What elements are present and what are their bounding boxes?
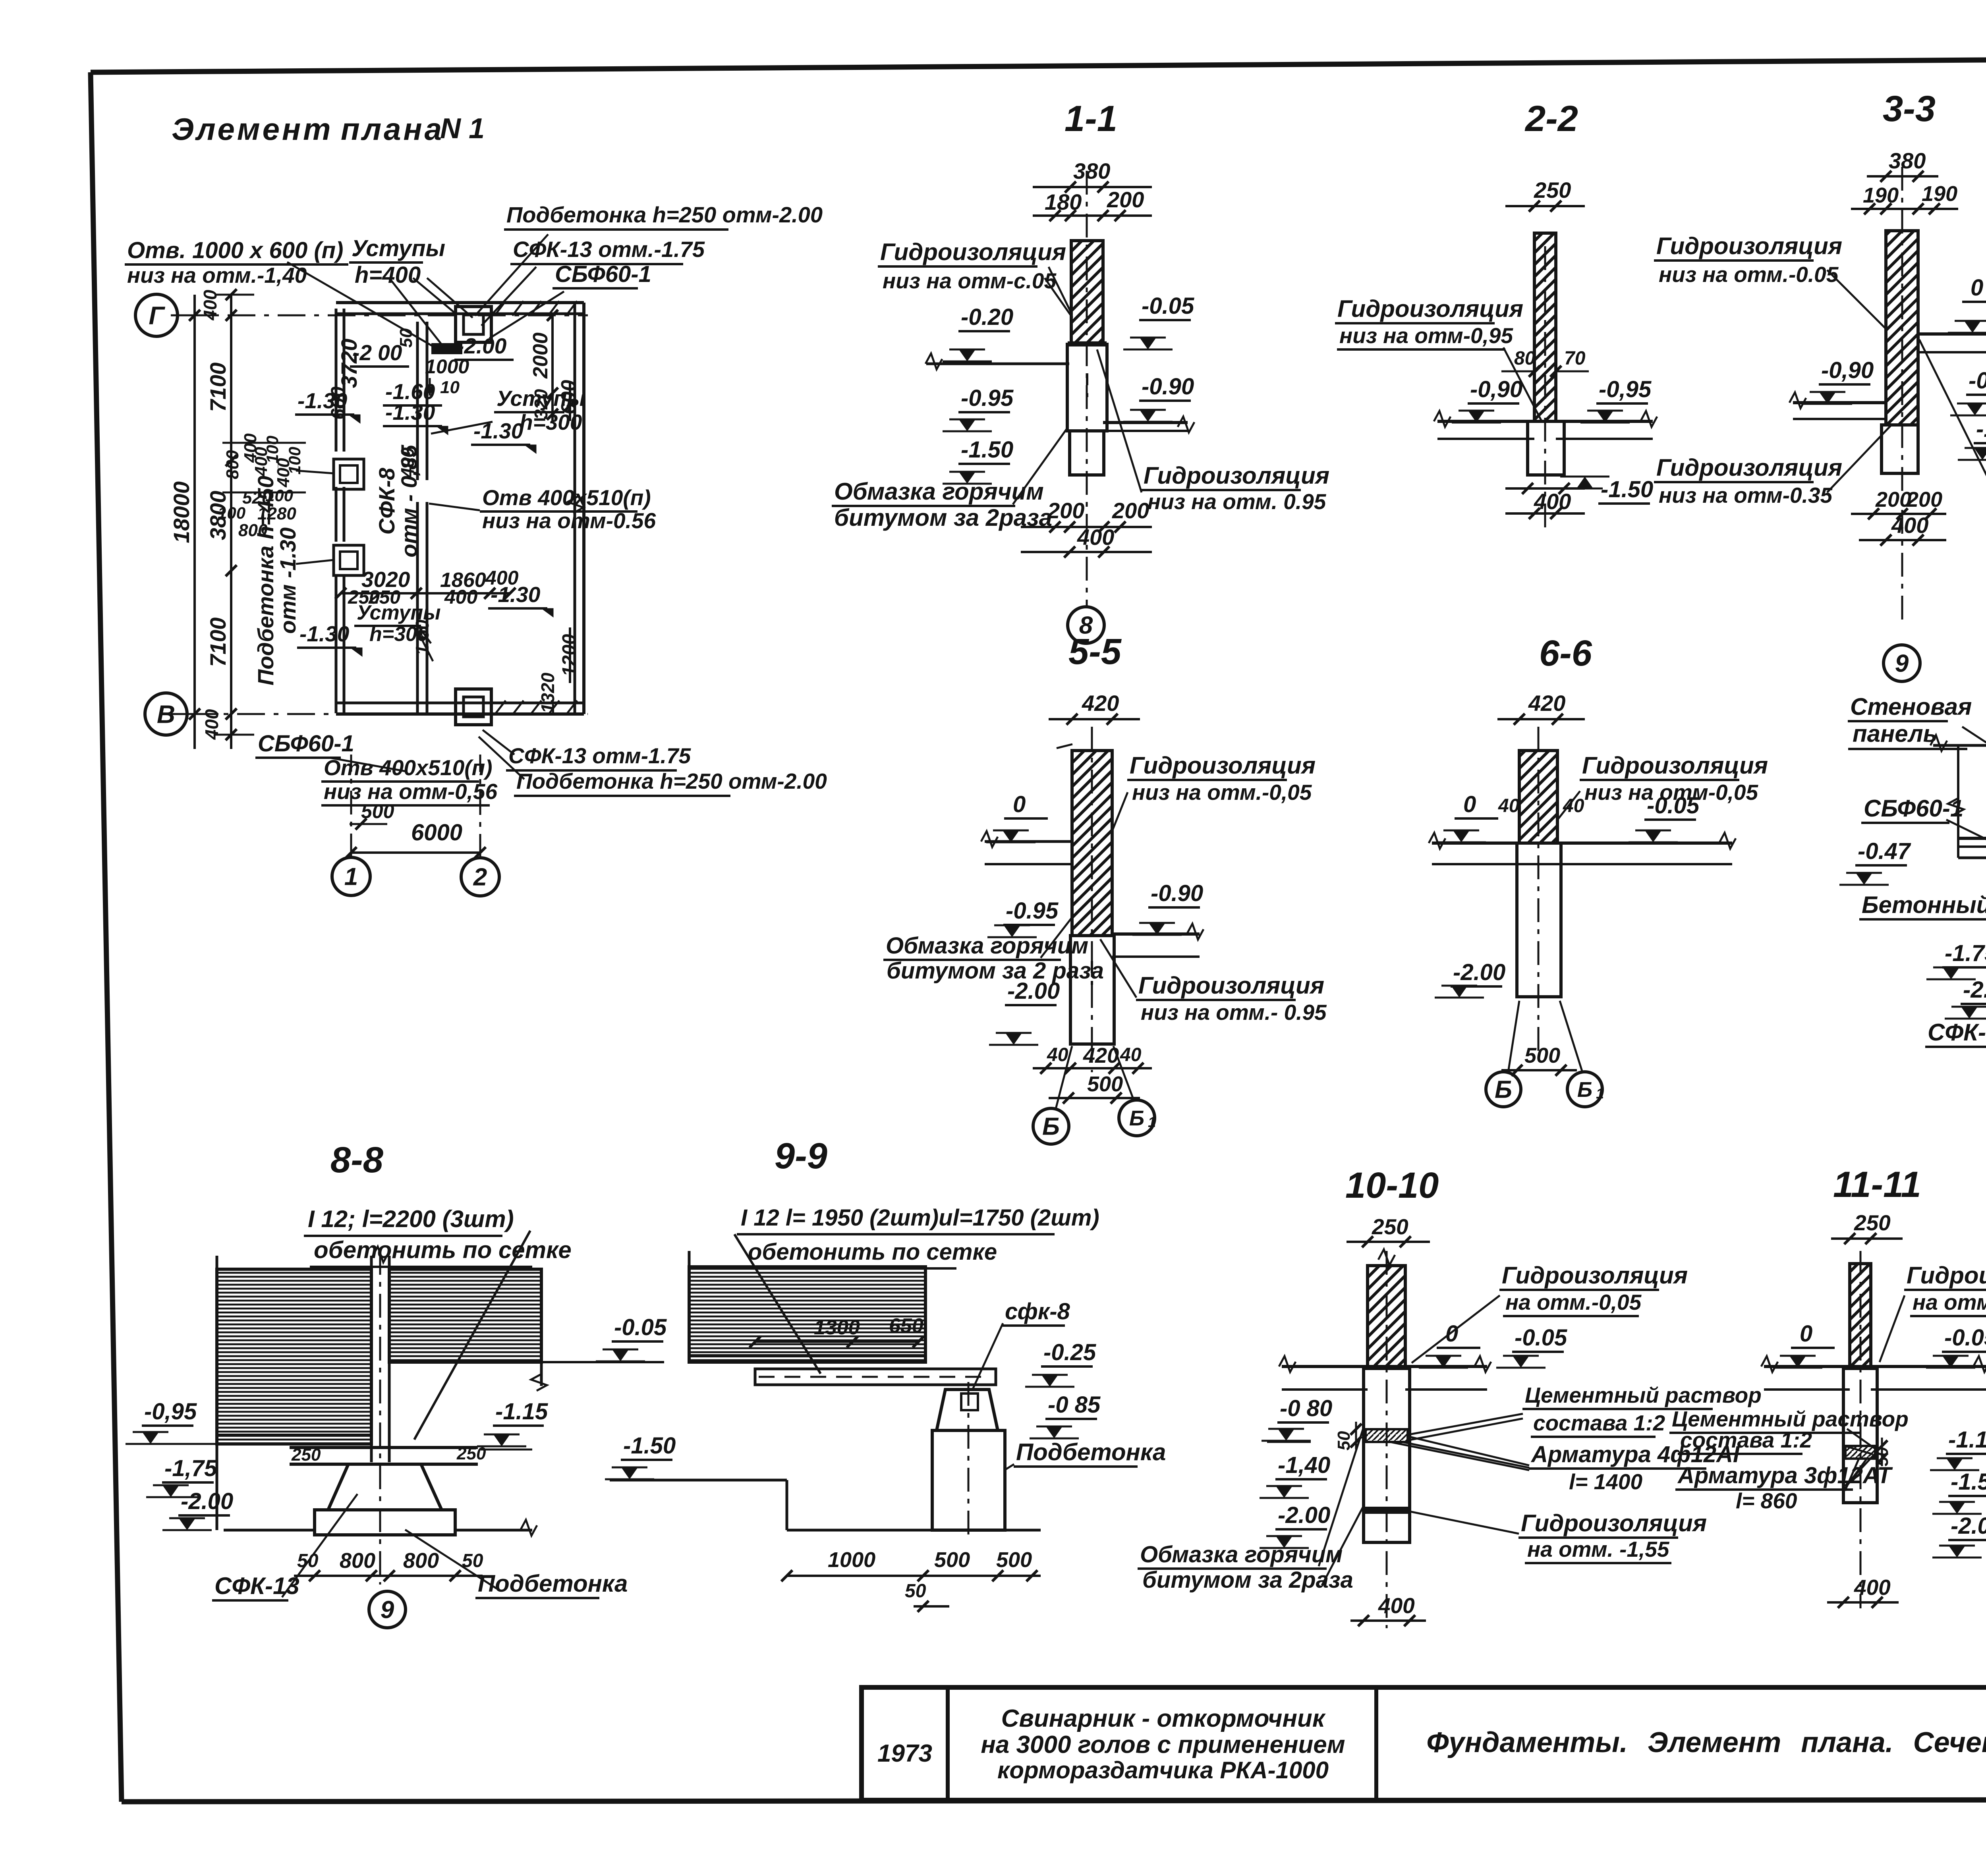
svg-text:380: 380 xyxy=(1889,148,1926,173)
svg-text:низ на отм.- 0.95: низ на отм.- 0.95 xyxy=(1141,1000,1327,1025)
svg-text:-0,95: -0,95 xyxy=(144,1399,197,1424)
svg-text:1300: 1300 xyxy=(814,1316,860,1339)
svg-text:800: 800 xyxy=(403,1549,439,1573)
svg-text:-1.50: -1.50 xyxy=(1601,477,1653,502)
svg-text:-0.05: -0.05 xyxy=(1944,1325,1986,1351)
svg-text:битумом за 2 раза: битумом за 2 раза xyxy=(887,958,1104,984)
svg-text:Подбетонка h=250 отм-2.00: Подбетонка h=250 отм-2.00 xyxy=(506,202,823,227)
svg-text:-1.15: -1.15 xyxy=(495,1399,548,1424)
svg-text:Гидроизоляция: Гидроизоляция xyxy=(1337,295,1523,322)
svg-text:кормораздатчика РКА-1000: кормораздатчика РКА-1000 xyxy=(997,1757,1329,1783)
svg-text:2000: 2000 xyxy=(529,332,552,379)
svg-text:-2.00: -2.00 xyxy=(1007,978,1060,1004)
svg-text:-0.05: -0.05 xyxy=(1142,293,1194,319)
svg-text:800: 800 xyxy=(340,1549,375,1573)
svg-text:-0.90: -0.90 xyxy=(1142,374,1194,400)
svg-text:Гидроизоляция: Гидроизоляция xyxy=(1502,1262,1688,1289)
svg-text:18000: 18000 xyxy=(169,481,194,543)
svg-text:-1,40: -1,40 xyxy=(1278,1452,1330,1478)
svg-text:400: 400 xyxy=(201,709,222,740)
svg-text:I 12 l= 1950 (2шт)иl=1750 (2ш: I 12 l= 1950 (2шт)иl=1750 (2шт) xyxy=(741,1205,1099,1231)
svg-text:0: 0 xyxy=(1463,791,1476,817)
svg-text:СБФ60-1: СБФ60-1 xyxy=(555,261,651,287)
svg-text:на отм.-0,05: на отм.-0,05 xyxy=(1505,1290,1642,1314)
svg-text:СФК-8: СФК-8 xyxy=(374,467,399,535)
svg-text:Подбетонка: Подбетонка xyxy=(1016,1439,1166,1465)
svg-text:500: 500 xyxy=(996,1548,1032,1572)
svg-text:Гидроизоляция: Гидроизоляция xyxy=(1138,972,1324,999)
svg-text:180: 180 xyxy=(1045,189,1082,214)
svg-text:1-1: 1-1 xyxy=(1064,98,1117,139)
svg-text:800: 800 xyxy=(238,521,268,540)
svg-text:Г: Г xyxy=(149,301,165,330)
svg-text:1200: 1200 xyxy=(559,634,580,676)
svg-text:-0,95: -0,95 xyxy=(1599,376,1652,402)
svg-text:500: 500 xyxy=(934,1548,970,1572)
svg-text:l= 860: l= 860 xyxy=(1736,1488,1797,1513)
svg-text:2: 2 xyxy=(473,864,487,891)
svg-text:-2.00: -2.00 xyxy=(457,334,507,358)
svg-text:Гидроизоляция: Гидроизоляция xyxy=(1907,1262,1986,1289)
svg-text:Гидроизоляция: Гидроизоляция xyxy=(1144,462,1329,489)
svg-text:500: 500 xyxy=(1087,1072,1123,1096)
svg-text:Уступы: Уступы xyxy=(352,235,445,261)
svg-text:Отв 400х510(п): Отв 400х510(п) xyxy=(324,755,493,780)
svg-text:8-8: 8-8 xyxy=(330,1140,384,1180)
svg-text:-2.00: -2.00 xyxy=(1951,1513,1986,1539)
svg-text:50: 50 xyxy=(905,1581,926,1602)
svg-text:100: 100 xyxy=(285,447,304,475)
svg-text:6-6: 6-6 xyxy=(1539,633,1592,674)
svg-text:11-11: 11-11 xyxy=(1833,1164,1921,1205)
svg-text:h=400: h=400 xyxy=(355,262,421,288)
svg-text:250: 250 xyxy=(291,1445,321,1465)
svg-text:битумом за 2раза: битумом за 2раза xyxy=(1142,1567,1353,1593)
svg-text:-2.00: -2.00 xyxy=(1453,959,1505,985)
svg-text:Уступы: Уступы xyxy=(496,386,585,411)
svg-text:250: 250 xyxy=(1854,1210,1891,1235)
svg-text:70: 70 xyxy=(1564,348,1586,369)
svg-text:200: 200 xyxy=(1047,498,1084,523)
svg-text:Бетонный столбик: Бетонный столбик xyxy=(1862,892,1986,918)
svg-text:-1.75: -1.75 xyxy=(1945,940,1986,966)
svg-text:6000: 6000 xyxy=(411,820,462,845)
svg-text:-1.30: -1.30 xyxy=(298,388,348,413)
svg-text:битумом за 2раза: битумом за 2раза xyxy=(834,504,1052,531)
svg-text:-0,90: -0,90 xyxy=(1821,357,1874,383)
svg-text:Б: Б xyxy=(1577,1078,1592,1102)
svg-text:Элемент: Элемент xyxy=(172,112,333,147)
svg-text:3-3: 3-3 xyxy=(1883,89,1936,129)
svg-text:Гидроизоляция: Гидроизоляция xyxy=(1521,1510,1707,1536)
svg-text:низ на отм-0,56: низ на отм-0,56 xyxy=(324,779,497,804)
svg-text:низ на отм-0.35: низ на отм-0.35 xyxy=(1659,483,1833,508)
svg-text:Цементный раствор: Цементный раствор xyxy=(1525,1383,1762,1407)
svg-text:400: 400 xyxy=(1891,513,1928,538)
svg-text:10-10: 10-10 xyxy=(1345,1165,1439,1206)
svg-text:-0 85: -0 85 xyxy=(1048,1392,1101,1418)
svg-text:1000: 1000 xyxy=(425,355,469,378)
svg-text:Свинарник - откормочник: Свинарник - откормочник xyxy=(1001,1705,1326,1732)
svg-text:отм - 0,85: отм - 0,85 xyxy=(396,444,421,557)
svg-text:Гидроизоляция: Гидроизоляция xyxy=(880,239,1066,265)
svg-text:на 3000 голов с применением: на 3000 голов с применением xyxy=(981,1731,1345,1758)
svg-text:1: 1 xyxy=(1148,1114,1156,1130)
svg-text:250: 250 xyxy=(1372,1214,1408,1239)
svg-text:низ на отм-с.05: низ на отм-с.05 xyxy=(883,268,1057,293)
svg-text:Подбетонка: Подбетонка xyxy=(478,1570,628,1597)
svg-text:400: 400 xyxy=(1077,525,1114,550)
svg-text:отм -1.30: отм -1.30 xyxy=(275,527,300,634)
svg-text:0: 0 xyxy=(1013,791,1026,817)
svg-text:Подбетонка h=250 отм-2.00: Подбетонка h=250 отм-2.00 xyxy=(516,769,827,793)
svg-text:1: 1 xyxy=(1596,1085,1604,1102)
svg-text:1973: 1973 xyxy=(877,1740,932,1767)
svg-text:420: 420 xyxy=(1082,691,1119,716)
svg-text:100: 100 xyxy=(218,504,245,522)
svg-text:Гидроизоляция: Гидроизоляция xyxy=(1582,752,1768,779)
svg-text:низ на отм.-0,05: низ на отм.-0,05 xyxy=(1132,780,1312,805)
svg-text:-1.12: -1.12 xyxy=(1948,1427,1986,1453)
svg-text:0: 0 xyxy=(1800,1321,1812,1347)
svg-text:420: 420 xyxy=(1528,691,1565,716)
svg-text:-2.00: -2.00 xyxy=(1963,977,1986,1003)
svg-text:200: 200 xyxy=(1112,498,1149,523)
svg-text:200: 200 xyxy=(1906,488,1942,511)
svg-text:400: 400 xyxy=(485,567,519,589)
svg-text:-0.95: -0.95 xyxy=(1969,368,1986,394)
svg-text:1320: 1320 xyxy=(537,672,558,713)
svg-text:I 12; l=2200 (3шт): I 12; l=2200 (3шт) xyxy=(308,1206,514,1232)
svg-text:Б: Б xyxy=(1495,1076,1512,1104)
svg-text:на отм.-0.05: на отм.-0.05 xyxy=(1913,1290,1986,1314)
svg-text:9: 9 xyxy=(1895,650,1909,677)
svg-text:250: 250 xyxy=(1534,178,1571,203)
svg-text:состава 1:2: состава 1:2 xyxy=(1533,1411,1665,1435)
svg-text:400: 400 xyxy=(1378,1593,1415,1618)
svg-text:-0.95: -0.95 xyxy=(961,385,1014,411)
svg-text:7100: 7100 xyxy=(205,618,230,667)
svg-text:-0.25: -0.25 xyxy=(1043,1339,1096,1365)
svg-text:состава 1:2: состава 1:2 xyxy=(1680,1428,1812,1452)
svg-text:Б: Б xyxy=(1129,1106,1144,1130)
svg-text:650: 650 xyxy=(889,1314,923,1338)
svg-text:-0.47: -0.47 xyxy=(1858,838,1911,864)
svg-text:Отв 400х510(п): Отв 400х510(п) xyxy=(482,485,651,510)
svg-text:-0.05: -0.05 xyxy=(614,1314,667,1340)
svg-text:-0,90: -0,90 xyxy=(1470,376,1522,402)
svg-text:-0.95: -0.95 xyxy=(1006,898,1059,924)
svg-text:0: 0 xyxy=(1971,275,1983,301)
svg-text:Фундаменты. Элемент плана.: Фундаменты. Элемент плана. Сечения. xyxy=(1426,1727,1986,1758)
svg-text:400: 400 xyxy=(1854,1575,1891,1600)
svg-text:N 1: N 1 xyxy=(440,113,485,145)
svg-text:40: 40 xyxy=(1498,795,1520,816)
svg-text:200: 200 xyxy=(1875,488,1911,511)
svg-text:500: 500 xyxy=(1524,1044,1560,1067)
svg-text:9: 9 xyxy=(381,1596,394,1624)
svg-text:-0.20: -0.20 xyxy=(961,304,1013,330)
svg-text:низ на отм.-1,40: низ на отм.-1,40 xyxy=(127,263,307,288)
svg-text:-1.30: -1.30 xyxy=(473,419,524,443)
svg-text:10: 10 xyxy=(440,378,460,397)
svg-text:800: 800 xyxy=(223,450,242,479)
svg-text:190: 190 xyxy=(1863,183,1899,207)
svg-text:400: 400 xyxy=(444,586,478,608)
svg-text:-1.58: -1.58 xyxy=(1951,1469,1986,1495)
svg-text:-1.50: -1.50 xyxy=(623,1433,676,1459)
svg-text:панель: панель xyxy=(1853,720,1937,747)
svg-text:-1.60: -1.60 xyxy=(385,379,435,404)
svg-text:40: 40 xyxy=(1563,795,1584,816)
svg-text:-1.50: -1.50 xyxy=(961,437,1013,463)
svg-text:Обмазка горячим: Обмазка горячим xyxy=(1140,1542,1343,1567)
svg-text:380: 380 xyxy=(1073,158,1110,183)
svg-text:Гидроизоляция: Гидроизоляция xyxy=(1656,233,1842,259)
svg-text:Обмазка горячим: Обмазка горячим xyxy=(834,478,1044,505)
svg-text:100: 100 xyxy=(265,486,293,505)
svg-text:-2.00: -2.00 xyxy=(1278,1502,1330,1528)
svg-text:-1,75: -1,75 xyxy=(164,1455,217,1481)
svg-text:сфк-8: сфк-8 xyxy=(1005,1299,1070,1324)
svg-text:40: 40 xyxy=(1047,1044,1068,1065)
svg-text:7100: 7100 xyxy=(205,363,230,412)
svg-text:-1.50: -1.50 xyxy=(1976,416,1986,442)
svg-text:низ на отм-0.56: низ на отм-0.56 xyxy=(482,508,656,533)
svg-text:СБФ60-1: СБФ60-1 xyxy=(258,731,354,757)
svg-text:СБФ60-1: СБФ60-1 xyxy=(1864,795,1963,822)
svg-text:-0.90: -0.90 xyxy=(1151,880,1203,906)
svg-text:0: 0 xyxy=(1445,1321,1458,1347)
svg-text:5-5: 5-5 xyxy=(1068,631,1122,672)
svg-text:Гидроизоляция: Гидроизоляция xyxy=(1130,752,1316,779)
svg-text:СФК-13 отм-1.75: СФК-13 отм-1.75 xyxy=(508,743,691,768)
svg-text:обетонить по сетке: обетонить по сетке xyxy=(314,1237,572,1263)
svg-text:низ на отм.-0.05: низ на отм.-0.05 xyxy=(1659,262,1839,287)
svg-text:СФК-13 отм.-1.75: СФК-13 отм.-1.75 xyxy=(513,237,705,262)
svg-text:-2 00: -2 00 xyxy=(352,340,402,365)
svg-text:190: 190 xyxy=(1922,182,1957,206)
svg-text:Гидроизоляция: Гидроизоляция xyxy=(1656,454,1842,481)
svg-text:-0 80: -0 80 xyxy=(1280,1395,1332,1421)
svg-text:40: 40 xyxy=(1120,1044,1142,1065)
svg-text:1: 1 xyxy=(344,863,358,891)
svg-text:2-2: 2-2 xyxy=(1524,98,1578,139)
svg-text:l= 1400: l= 1400 xyxy=(1569,1469,1642,1494)
svg-text:1000: 1000 xyxy=(828,1548,875,1572)
svg-text:Уступы: Уступы xyxy=(357,601,441,624)
svg-text:80: 80 xyxy=(1514,348,1536,369)
svg-text:СФК-13: СФК-13 xyxy=(1928,1019,1986,1046)
svg-text:низ на отм. 0.95: низ на отм. 0.95 xyxy=(1148,489,1327,514)
svg-text:400: 400 xyxy=(200,290,220,320)
svg-text:Отв. 1000 х 600 (п): Отв. 1000 х 600 (п) xyxy=(127,237,343,263)
svg-text:СФК-13: СФК-13 xyxy=(214,1573,299,1599)
svg-text:200: 200 xyxy=(1107,187,1144,212)
svg-text:9-9: 9-9 xyxy=(775,1136,827,1176)
svg-text:-0.05: -0.05 xyxy=(1515,1325,1567,1351)
svg-text:-2.00: -2.00 xyxy=(181,1488,233,1514)
svg-text:h=300: h=300 xyxy=(520,410,582,434)
svg-text:-0.05: -0.05 xyxy=(1647,793,1700,818)
svg-text:плана: плана xyxy=(341,112,444,147)
svg-text:Б: Б xyxy=(1042,1113,1060,1141)
svg-text:обетонить по сетке: обетонить по сетке xyxy=(748,1239,997,1265)
svg-text:на отм. -1,55: на отм. -1,55 xyxy=(1527,1537,1670,1561)
svg-text:Стеновая: Стеновая xyxy=(1850,693,1972,720)
svg-text:-1.30: -1.30 xyxy=(299,621,350,646)
svg-text:низ на отм-0,95: низ на отм-0,95 xyxy=(1339,323,1513,348)
